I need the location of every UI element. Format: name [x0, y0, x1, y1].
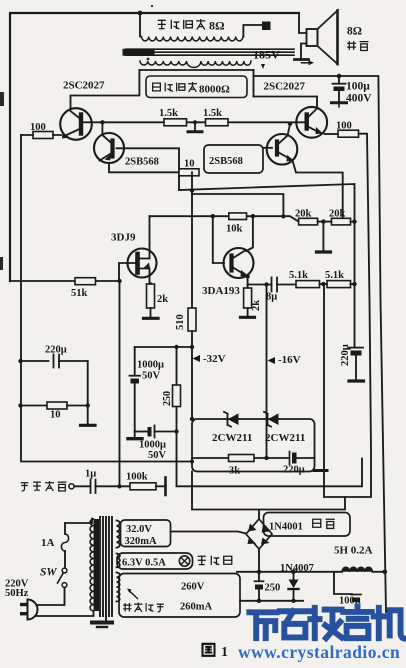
wire negative supply row: [237, 571, 342, 573]
fuse F1 1A: [64, 523, 66, 534]
resistor R16 250: [176, 347, 178, 432]
svg-text:8Ω: 8Ω: [209, 19, 225, 33]
resistor R7 51k: [75, 278, 96, 285]
labels top section: [30, 19, 372, 170]
svg-text:20k: 20k: [295, 209, 312, 220]
ground under C4/R15: [81, 424, 96, 427]
svg-text:32.0V: 32.0V: [126, 524, 152, 535]
diode D3 1N4007: [293, 572, 295, 580]
svg-text:5.1k: 5.1k: [325, 270, 344, 281]
resistor R2 1.5k: [164, 119, 187, 126]
svg-text:100k: 100k: [126, 472, 148, 483]
svg-text:20k: 20k: [329, 209, 346, 220]
bridge rectifier 1N4001 x4: [246, 519, 272, 549]
svg-text:50Hz: 50Hz: [5, 588, 29, 599]
resistor R11 5.1k: [296, 281, 320, 288]
input terminal and C7 1u: [69, 484, 74, 489]
svg-text:10: 10: [184, 159, 195, 170]
wire -16V rail: [266, 285, 268, 459]
label box 2SB568 (right): [204, 145, 263, 173]
ground between 1.5k resistors: [193, 120, 197, 124]
transistor Q3 2SB568 (right): [267, 134, 298, 165]
wire secondary right end to terminal: [243, 25, 262, 37]
resistor R17 100k: [130, 483, 156, 490]
transformer T2 secondary windings: [117, 521, 120, 548]
svg-text:2SB568: 2SB568: [125, 157, 159, 168]
transformer T1 secondary left leg: [139, 13, 141, 37]
svg-text:220μ: 220μ: [340, 344, 351, 366]
transistor Q4 2SC2027 (right): [296, 107, 327, 138]
labels bottom section: [5, 432, 373, 613]
svg-text:220μ: 220μ: [283, 465, 305, 476]
wire to bridge: [171, 532, 247, 534]
svg-text:3k: 3k: [229, 466, 240, 477]
svg-text:100: 100: [30, 122, 46, 133]
scan marks: [0, 5, 153, 270]
watermark 矿石收音机: [249, 607, 405, 639]
wire 3DA193 base drop: [213, 216, 224, 263]
svg-text:2SC2027: 2SC2027: [264, 81, 306, 93]
wire bootstrap lower (to 10k row): [192, 194, 283, 216]
svg-text:250: 250: [162, 391, 173, 406]
capacitor C2 8u row: [248, 284, 272, 286]
svg-text:400V: 400V: [346, 93, 372, 105]
transistor Q5 3DA193: [224, 248, 254, 278]
svg-text:260mA: 260mA: [180, 602, 212, 613]
wire speaker top lead: [299, 13, 307, 33]
svg-text:1N4007: 1N4007: [280, 563, 314, 574]
resistor R18 3k: [229, 455, 255, 462]
svg-text:51k: 51k: [71, 288, 88, 299]
capacitor C6 1000u 50V (lower): [135, 431, 147, 433]
wire Q1 base row (1.5k row): [84, 121, 306, 123]
capacitor C4 220u (left) with R15 10: [18, 359, 22, 363]
indicator lamp: [179, 556, 189, 566]
label box around primary label: [146, 76, 247, 98]
wire Q4 emitter to R5: [325, 133, 339, 135]
wire lower link h1: [177, 432, 363, 487]
wire top rail and left feedback rail: [10, 13, 299, 281]
caption 图 1: [203, 644, 229, 660]
ground under C5 leg: [134, 432, 136, 438]
svg-text:220μ: 220μ: [45, 345, 67, 356]
wire 1000u top row: [135, 346, 192, 348]
choke L1 5H 0.2A: [342, 567, 372, 572]
wire bootstrap upper (to 20k rail): [179, 184, 355, 347]
regulator loop box (2CW211 frame): [192, 419, 315, 472]
resistor R13 20k: [299, 218, 318, 225]
resistor R3 1.5k: [206, 119, 229, 126]
wire 51k feedback row: [10, 280, 119, 282]
svg-text:5.1k: 5.1k: [289, 270, 308, 281]
wire speaker bottom lead: [301, 44, 307, 58]
svg-text:100: 100: [336, 121, 352, 132]
svg-text:5H 0.2A: 5H 0.2A: [334, 545, 373, 557]
capacitor C1 100u 400V: [337, 74, 342, 79]
resistor R1 100 (left): [21, 134, 61, 136]
transformer T1 secondary winding: [142, 37, 244, 41]
capacitor C3 220u (right rail): [349, 347, 363, 349]
svg-text:-32V: -32V: [203, 353, 226, 365]
resistor R5 100 (right): [338, 130, 359, 137]
resistor R12 5.1k: [327, 281, 351, 288]
speaker SP cone: [318, 11, 338, 65]
svg-text:2k: 2k: [251, 300, 262, 311]
ground under speaker with arrow: [295, 58, 309, 61]
svg-text:2SB568: 2SB568: [209, 156, 243, 167]
node terminal square of secondary: [262, 22, 271, 31]
resistor R4 10: [179, 169, 199, 176]
transformer T1 primary winding: [140, 61, 251, 67]
ground under R8: [144, 317, 159, 320]
wire bridge output down: [258, 549, 260, 572]
svg-text:1μ: 1μ: [85, 469, 96, 480]
transistor Q1 2SC2027 (left): [60, 108, 92, 140]
wire center rail (-32V) with 510: [191, 172, 193, 419]
svg-text:250: 250: [265, 583, 281, 594]
capacitor C5 1000u 50V: [134, 347, 136, 375]
wire lower link h3 (-32V to bridge): [192, 472, 345, 520]
transformer T2 primary winding: [94, 519, 100, 611]
svg-text:2SC2027: 2SC2027: [63, 80, 105, 92]
wire lower supply row: [240, 600, 303, 602]
svg-text:1000μ: 1000μ: [139, 440, 166, 451]
transformer T1 core laminations: [126, 49, 294, 55]
svg-text:1A: 1A: [41, 537, 55, 549]
capacitor C9 250u: [258, 572, 260, 581]
wire left input rail: [21, 135, 192, 462]
resistor R10 2k (3DA193 emitter): [247, 277, 249, 289]
wire gate node down to input node: [119, 281, 121, 486]
svg-text:8000Ω: 8000Ω: [199, 84, 230, 96]
svg-text:10: 10: [50, 410, 61, 421]
svg-text:2CW211: 2CW211: [212, 432, 252, 444]
wire Q2 base to bootstrap: [117, 148, 180, 190]
speaker SP driver: [307, 29, 318, 46]
resistor R14 20k: [332, 218, 351, 225]
wire plug lower lead: [36, 611, 94, 616]
wire mains top lead: [65, 519, 92, 524]
resistor R9 10k: [229, 213, 247, 220]
ground under R10: [241, 316, 255, 319]
resistor R6 510: [188, 308, 196, 331]
svg-text:3DA193: 3DA193: [202, 285, 240, 297]
lamp label box 6.3V: [117, 553, 193, 569]
svg-text:1.5k: 1.5k: [203, 108, 222, 119]
svg-text:www.crystalradio.cn: www.crystalradio.cn: [238, 642, 400, 662]
zener D2 2CW211: [268, 413, 279, 425]
svg-text:3DJ9: 3DJ9: [111, 232, 136, 244]
svg-text:320mA: 320mA: [125, 536, 157, 547]
label box 32.0V 320mA: [121, 520, 171, 547]
wire under primary: [139, 69, 253, 71]
wire to Q4 collector: [254, 97, 318, 109]
zener D1 2CW211: [228, 413, 239, 425]
svg-text:2k: 2k: [157, 294, 168, 305]
svg-text:50V: 50V: [148, 450, 167, 461]
ground stub at right of box: [314, 469, 327, 472]
svg-text:8Ω: 8Ω: [347, 26, 362, 38]
ground under T2 core: [105, 616, 107, 621]
wire inner row with 3k and 220u: [192, 457, 289, 459]
svg-text:2CW211: 2CW211: [265, 432, 305, 444]
svg-text:1000μ: 1000μ: [137, 360, 164, 371]
resistor R8 2k (3DJ9 source): [147, 284, 155, 308]
labels middle section: [21, 209, 351, 491]
switch SW: [62, 568, 67, 573]
wire drain row of 3DJ9: [150, 216, 299, 221]
svg-text:1.5k: 1.5k: [159, 108, 178, 119]
svg-text:SW: SW: [40, 567, 57, 579]
svg-text:100μ: 100μ: [346, 81, 370, 93]
ground between 20k resistors: [322, 222, 324, 251]
svg-text:6.3V 0.5A: 6.3V 0.5A: [122, 558, 166, 569]
wire -185V rail (right side): [254, 76, 387, 612]
capacitor C10 100u: [334, 572, 352, 594]
svg-text:50V: 50V: [142, 371, 161, 382]
wire primary right end down: [253, 70, 255, 97]
wire primary left end to Q1 collector: [71, 70, 140, 109]
wire Q3 emitter down to 20k row: [293, 161, 343, 219]
svg-text:8μ: 8μ: [266, 292, 277, 303]
svg-text:260V: 260V: [181, 582, 205, 593]
svg-text:510: 510: [175, 314, 186, 330]
svg-text:-16V: -16V: [278, 354, 301, 366]
FET U1 3DJ9: [128, 249, 157, 278]
svg-text:1N4001: 1N4001: [269, 522, 303, 533]
wire Q2 emitter row: [109, 163, 192, 172]
svg-text:1: 1: [221, 645, 228, 660]
svg-text:10k: 10k: [226, 224, 243, 235]
wire Q3 base from label box: [263, 147, 272, 149]
capacitor C8 220u: [289, 452, 291, 465]
svg-text:-185V: -185V: [249, 48, 280, 62]
power transformer T2 core: [100, 517, 112, 616]
label box 260V 260mA: [119, 574, 240, 618]
transistor Q2 2SB568 (left): [101, 122, 103, 134]
plug P1: [27, 600, 29, 620]
label box 1N4001: [264, 513, 351, 537]
wire feedback rail from R5: [324, 134, 371, 497]
